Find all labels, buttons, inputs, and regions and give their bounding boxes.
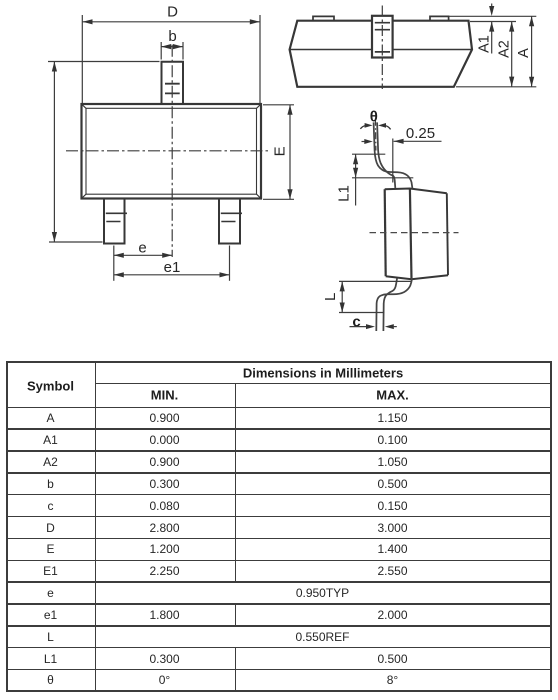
- side view: center pin ticks: [375, 23, 390, 52]
- table: row divider lines: [6, 428, 552, 430]
- table: row theta: [47, 673, 54, 687]
- dimension b: line and arrows: [161, 46, 183, 48]
- table: row D: [46, 521, 55, 535]
- front view: top pin 2: [162, 62, 184, 104]
- dimension L: extension lines: [339, 281, 411, 312]
- table: row A2: [43, 455, 58, 469]
- dimension e: line and arrows: [114, 254, 172, 256]
- table: row e (merged): [47, 586, 54, 600]
- table: row e1: [44, 608, 57, 622]
- front view: package body outline: [82, 104, 262, 199]
- dimension theta: center line through lead tip: [374, 119, 377, 151]
- front view: bottom right pin: [219, 199, 240, 244]
- table: vertical divider symbol column: [95, 361, 97, 690]
- svg-text:A2: A2: [497, 40, 513, 58]
- front view: vertical center line: [171, 45, 173, 257]
- dimension E: extension lines: [263, 105, 294, 200]
- dimension L1: line, arrows and shaft: [355, 154, 357, 205]
- dimension c: left leader and arrow: [350, 326, 367, 328]
- front view: body inner mold line: [86, 108, 257, 194]
- svg-text:e1: e1: [164, 259, 181, 276]
- side view: vertical center line: [381, 6, 383, 90]
- dimension A1/A/A2: extension lines: [449, 16, 536, 87]
- dimension D: extension lines: [82, 15, 260, 103]
- svg-text:e: e: [138, 240, 146, 257]
- profile view: bottom gull-wing lead inner edge: [383, 278, 397, 331]
- dimension e: extension line from left pin center: [113, 246, 115, 281]
- svg-text:θ: θ: [370, 109, 378, 126]
- dimension b: extension lines: [161, 42, 183, 60]
- side view: center pin: [372, 16, 393, 58]
- table: row A: [46, 411, 54, 425]
- svg-text:b: b: [168, 28, 176, 45]
- table: row E1: [43, 564, 58, 578]
- dimension D: line and arrows: [83, 21, 260, 23]
- profile view: horizontal center line (dashed): [370, 232, 459, 234]
- svg-text:E: E: [272, 146, 289, 156]
- dimension 0.25: gauge plane line: [392, 139, 394, 183]
- dimension c: right arrow and tail: [394, 326, 397, 328]
- front view: top pin solder ticks: [165, 84, 180, 94]
- table: header texts: [27, 378, 74, 393]
- dimension A1: upper pointer arrow: [491, 4, 493, 9]
- dimension E: line and arrows: [289, 105, 291, 200]
- side view: package body outline: [290, 21, 472, 87]
- front view: bottom left pin ticks: [106, 213, 127, 221]
- front view: horizontal center line: [66, 150, 271, 152]
- dimension E1 (unlabeled left): extension lines: [48, 62, 160, 243]
- svg-text:A: A: [516, 48, 532, 58]
- svg-text:L1: L1: [336, 185, 353, 202]
- dimension A: line and arrows: [531, 16, 533, 87]
- dimension 0.25: leader line and arrow: [394, 140, 442, 142]
- profile view: body face divider: [410, 189, 412, 280]
- front view: body corner chamfers: [82, 105, 260, 198]
- table: row L (merged): [47, 630, 54, 644]
- table: row A1: [43, 433, 58, 447]
- front view: bottom right pin ticks: [221, 213, 242, 221]
- svg-text:c: c: [352, 314, 360, 331]
- dimension A2: line and arrows: [511, 22, 513, 87]
- table: row b: [47, 477, 54, 491]
- dimension e1: line and arrows: [114, 274, 230, 276]
- dimension e1: extension line from right pin center: [229, 246, 231, 281]
- side view: left top tab: [313, 16, 334, 20]
- profile view: body bottom edge: [386, 275, 448, 279]
- svg-text:0.25: 0.25: [406, 125, 435, 142]
- table: outer border: [6, 361, 552, 363]
- profile view: body right edge: [447, 193, 448, 275]
- dimension 0.25: left counter arrow: [362, 141, 366, 143]
- side view: right top tab: [430, 16, 449, 20]
- table: row E: [46, 542, 54, 556]
- table: row c: [48, 499, 54, 513]
- table: vertical divider min/max column (skips merged rows): [235, 383, 237, 583]
- profile view: bottom gull-wing lead outer edge: [376, 278, 412, 331]
- svg-text:A1: A1: [477, 35, 493, 53]
- table: row L1: [44, 652, 57, 666]
- dimension L: line and arrows: [341, 281, 343, 312]
- profile view: body front face: [385, 189, 386, 276]
- side view: mold parting line: [290, 49, 472, 51]
- dimension A1: lower arrow and shaft: [491, 22, 493, 54]
- dimension E1: line and arrows: [53, 62, 55, 243]
- profile view: top gull-wing lead inner edge: [377, 122, 395, 188]
- profile view: body top edge: [385, 189, 447, 194]
- dimension theta: angle arrows: [365, 123, 373, 128]
- table: header divider lines: [95, 383, 552, 385]
- front view: bottom left pin: [104, 199, 125, 244]
- svg-text:D: D: [167, 4, 178, 21]
- svg-text:L: L: [322, 293, 339, 301]
- profile view: top gull-wing lead outer edge: [374, 122, 413, 188]
- dimension L1: extension lines: [352, 154, 413, 178]
